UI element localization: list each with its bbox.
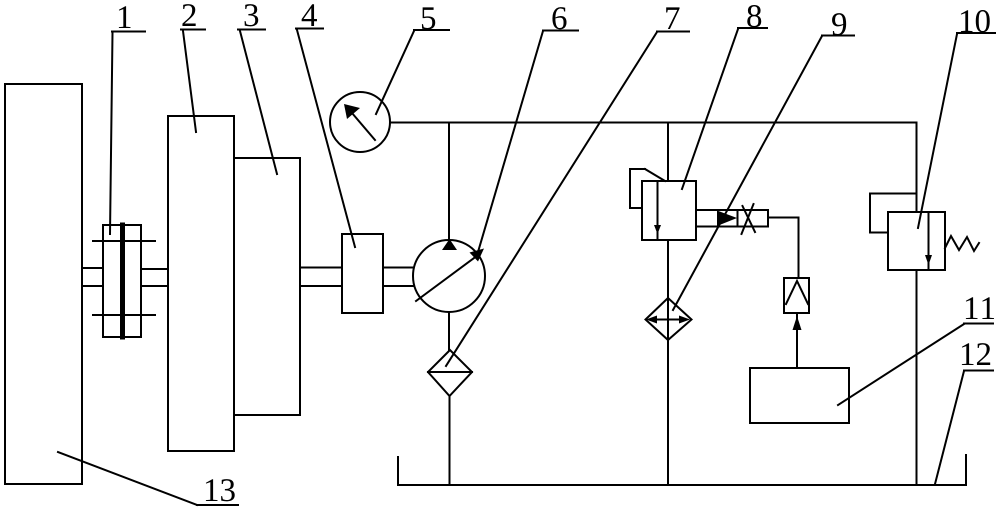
label 9	[673, 13, 854, 310]
shaft wire motor-to-coupling	[82, 268, 103, 286]
label 5	[376, 7, 449, 114]
shaft wire 4-to-pump	[383, 268, 413, 287]
coupling 1	[93, 225, 155, 337]
wire pump to main line	[448, 123, 450, 240]
shuttle filter 9	[646, 298, 692, 340]
label 12	[935, 343, 993, 484]
wire pump to filter	[448, 312, 450, 350]
label 8	[682, 5, 767, 189]
throttle with arrow	[696, 204, 768, 234]
relief valve 10	[870, 194, 979, 271]
component 4	[342, 234, 383, 313]
shaft wire coupling-to-gearbox	[141, 269, 168, 286]
gearbox 2	[168, 116, 234, 451]
label 10	[918, 10, 995, 228]
gauge 5	[330, 92, 390, 152]
wire valve8 to tank	[667, 240, 669, 485]
label 7	[446, 7, 689, 366]
wire check valve to tank 11 with up arrow	[793, 313, 802, 368]
label 1	[110, 6, 145, 234]
wire throttle to check valve	[768, 218, 799, 279]
tank 11	[750, 368, 849, 423]
wire filter to tank	[449, 396, 451, 485]
main supply wire	[390, 122, 917, 124]
gearbox 3	[234, 158, 300, 415]
label 13	[58, 452, 238, 505]
shaft wire gearbox-to-4	[300, 268, 342, 287]
wire main line down right	[916, 123, 918, 213]
valve 8	[630, 169, 696, 240]
pump 6	[413, 239, 485, 312]
check valve	[784, 278, 809, 313]
motor block 13	[5, 84, 82, 484]
wire valve10 to tank	[916, 270, 918, 485]
label 6	[478, 7, 578, 252]
label 3	[238, 4, 277, 174]
label 2	[181, 4, 205, 132]
filter 7	[428, 350, 472, 396]
tank line 12	[398, 455, 966, 485]
label 11	[838, 297, 994, 405]
label 4	[296, 4, 355, 247]
wire valve8 feed	[667, 123, 669, 181]
